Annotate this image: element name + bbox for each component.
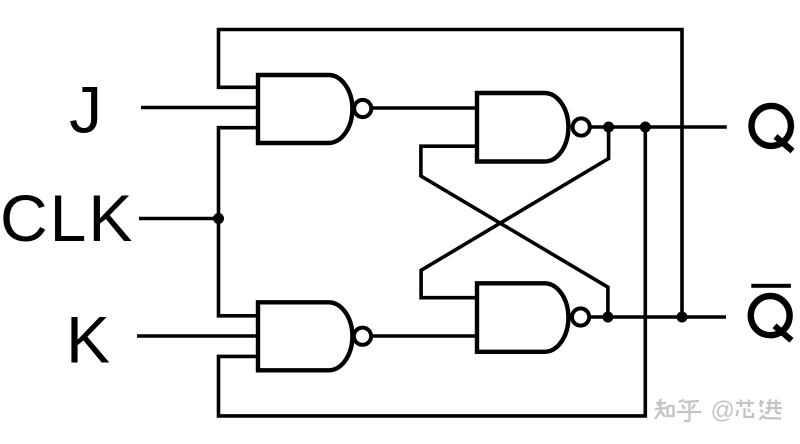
watermark char 乎: [677, 400, 702, 421]
junction dot: Qbar node at feedback vertical: [677, 312, 688, 323]
svg-text:K: K: [66, 303, 110, 377]
nand-gate U1 body (top-left, 3-input): [258, 75, 352, 143]
svg-text:J: J: [69, 73, 102, 147]
wire: CLK vertical from gate U1 bottom input down to gate U4 top input: [219, 128, 259, 316]
label: output Qbar letter (drawn): [751, 296, 792, 340]
wire: Qbar output line: [589, 315, 726, 319]
wire: Q output line: [590, 125, 727, 129]
wire: gate U4 output to gate U3 bottom input: [371, 334, 477, 338]
wire: cross-coupling Q node to gate U3 top input: [421, 127, 608, 298]
svg-text:@: @: [711, 397, 735, 424]
wire: cross-coupling Qbar node to gate U2 bottom input: [421, 146, 608, 317]
wire: J input lead: [141, 106, 258, 110]
nand-gate U1 inversion bubble: [354, 100, 371, 117]
watermark: zhihu credit text, char 知: [655, 399, 782, 421]
label: output Q (drawn): [752, 106, 793, 151]
wire: Q feedback from Q node down along right, bottom rail, up to gate U4 bottom input: [219, 127, 646, 416]
svg-text:CLK: CLK: [0, 181, 134, 255]
wire: gate U1 output to gate U2 top input: [371, 106, 477, 110]
label: overline bar of Qbar: [751, 284, 791, 288]
watermark char 芯: [736, 400, 754, 418]
junction dot: CLK tee: [213, 213, 224, 224]
nand-gate U2 inversion bubble: [573, 118, 590, 135]
junction dot: Q node at feedback vertical: [640, 122, 651, 133]
wire: CLK input lead: [139, 217, 219, 221]
watermark char 选: [759, 399, 782, 420]
junction dot: Qbar node at cross wire: [602, 312, 613, 323]
nand-gate U3 inversion bubble: [572, 308, 589, 325]
nand-gate U3 body (bottom-right, 2-input): [477, 283, 568, 352]
nand-gate U4 body (bottom-left, 3-input): [258, 302, 352, 370]
wire: Qbar feedback, top rail from gate U3 output up and left to gate U1 top input: [219, 30, 683, 318]
nand-gate U4 inversion bubble: [354, 328, 371, 345]
wire: K input lead: [137, 334, 258, 338]
nand-gate U2 body (top-right, 2-input): [477, 93, 568, 162]
junction dot: Q node at cross wire: [603, 122, 614, 133]
